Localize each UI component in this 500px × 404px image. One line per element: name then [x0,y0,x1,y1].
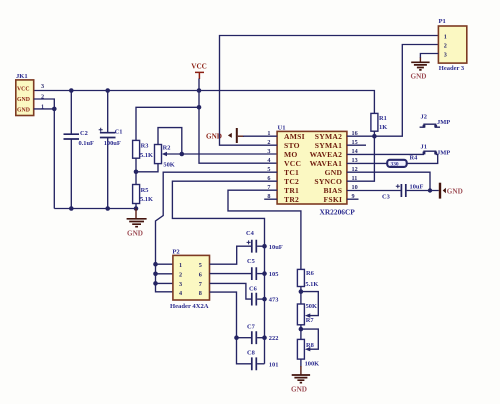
svg-text:JMP: JMP [437,149,450,156]
svg-text:R7: R7 [306,317,315,324]
jumper J2 JMP unconnected [420,113,451,127]
svg-text:R5: R5 [141,187,149,194]
svg-text:J2: J2 [421,113,427,120]
svg-text:C4: C4 [246,230,255,237]
svg-text:3: 3 [267,148,270,155]
svg-text:R1: R1 [379,115,387,122]
node R6/R7 junction [299,289,304,294]
svg-text:6: 6 [199,271,202,278]
svg-text:5: 5 [199,262,202,269]
wire U1 pin15 stub [347,144,366,146]
svg-text:Header 4X2A: Header 4X2A [170,303,209,310]
svg-text:3: 3 [444,51,447,58]
resistor R4 330 [387,154,418,167]
wire GND port to U1 pin1 [243,135,277,137]
wire R1 junction down to U1 pin11 SYNCO [347,136,375,181]
svg-text:WAVEA2: WAVEA2 [310,150,343,159]
wire C7 right plate to bus [257,337,264,339]
U1 right pin names [310,132,343,204]
node C7 branch junction [234,335,239,340]
wire U1 pin7 TR1 over to R6 chain [228,190,301,269]
svg-text:TC1: TC1 [284,168,299,177]
wire C5 right plate to bus [257,273,264,275]
svg-text:5.1K: 5.1K [140,152,153,159]
svg-text:R4: R4 [410,154,419,161]
svg-text:WAVEA1: WAVEA1 [310,159,343,168]
svg-text:8: 8 [199,290,202,297]
wire P1 pin3 to earth ground [420,54,438,59]
svg-text:C3: C3 [382,193,390,200]
node VCC tap junction on top rail [197,88,202,93]
capacitor C5 [247,258,278,280]
connector JK1 [16,73,44,116]
connector P1 Header 3 [438,18,466,72]
svg-text:STO: STO [284,141,300,150]
svg-text:3: 3 [41,83,44,90]
ground earth symbol below R5 [127,209,147,238]
svg-text:2: 2 [444,42,447,49]
wire P2 pin1 stub [156,263,174,265]
ground port GND at U1 pin1 AMSI [206,128,244,143]
svg-text:TR2: TR2 [284,195,299,204]
capacitor C2 [64,130,95,147]
node C1 bottom junction [105,206,110,211]
ground port GND right of C3 [440,183,463,199]
svg-text:SYMA2: SYMA2 [315,132,342,141]
svg-text:0.1uF: 0.1uF [79,140,95,147]
svg-text:MO: MO [284,150,298,159]
svg-text:XR2206CP: XR2206CP [320,208,356,217]
ground earth symbol below P1 [411,58,430,81]
potentiometer R8 100K [297,339,319,367]
node R5/ground rail junction [134,206,139,211]
svg-text:10uF: 10uF [410,184,424,191]
wire P2 pin3 stub [156,282,174,284]
svg-text:TC2: TC2 [284,177,299,186]
wire U1 pin9 FSKI stub [347,198,359,200]
svg-text:GND: GND [325,168,343,177]
wire R7 wiper loop to R6 bottom [301,292,318,316]
wire R2 bottom to R3 bottom [136,164,158,172]
node R2 wiper junction [180,152,185,157]
wire VCC vertical to IC pin4 [199,91,277,164]
wire P2 pin7 down to C6 left plate [210,283,251,299]
wire U1 pin10 BIAS to C3 left plate [347,190,401,192]
node C3/pin12 ground junction [428,188,432,192]
svg-text:C1: C1 [115,129,123,136]
svg-text:VCC: VCC [284,159,301,168]
node P2 pin2 junction [153,272,158,277]
svg-text:BIAS: BIAS [323,186,342,195]
svg-text:GND: GND [17,97,30,103]
node C2 top junction [69,88,74,93]
svg-text:4: 4 [267,157,270,164]
wire bottom ground rail [54,208,136,210]
svg-text:C2: C2 [80,130,88,137]
wire R2 wiper to IC pin3 MO [167,153,278,155]
resistor R1 [371,113,387,131]
U1 left pin names [284,132,305,204]
wire P2 pin6 to C5 left plate [210,273,251,275]
wire R6 bottom to R7 top [300,287,302,305]
svg-text:222: 222 [269,335,279,342]
svg-text:R3: R3 [141,143,149,150]
wire second rail to R3 top [136,107,199,140]
capacitor C6 [249,285,278,305]
capacitor C8 [247,350,278,371]
svg-text:C7: C7 [247,324,256,331]
svg-text:4: 4 [179,290,182,297]
U1 right pin numbers 16-9 [352,130,358,200]
wire U1 pin14 WAVEA2 to J1 [347,153,424,155]
svg-text:5.1K: 5.1K [305,281,318,288]
svg-text:101: 101 [269,361,279,368]
svg-text:P2: P2 [172,249,180,256]
svg-text:C8: C8 [247,350,255,357]
node C4 bus junction [262,244,267,249]
svg-text:10uF: 10uF [269,244,283,251]
wire P2 pin5 up to C4 left plate [210,246,251,264]
capacitor C3 polarized 10uF [382,184,423,201]
jumper J1 JMP [421,144,451,157]
svg-text:GND: GND [17,108,30,114]
wire C4 right plate to bus [257,245,264,247]
svg-text:C6: C6 [249,285,258,292]
resistor R5 [133,185,153,204]
svg-text:50K: 50K [163,161,174,168]
svg-text:7: 7 [199,281,202,288]
wire JK1 pin2 down to pin1 net [34,99,55,109]
wire C8 right plate to bus end [257,363,264,365]
svg-text:1K: 1K [379,124,387,131]
wire U1 pin5 TC1 to P2 left column [156,172,278,292]
wire P2 pin2 stub [156,273,174,275]
node R1 bottom junction [372,134,377,139]
U1 left pin numbers 1-8 [267,130,270,200]
capacitor C7 [247,324,278,345]
wire R7 bottom to R8 top [300,325,302,340]
wire U1 pin12 GND down to C3 node [347,172,430,190]
svg-text:VCC: VCC [17,87,30,93]
svg-text:50K: 50K [306,303,317,310]
svg-text:C5: C5 [247,258,255,265]
node R7/R8 junction [299,327,304,332]
svg-text:GND: GND [127,229,143,237]
wire R8 bottom to earth ground [300,359,302,366]
wire C7 branch [237,337,252,339]
svg-text:330: 330 [391,162,399,168]
node C2 bottom junction [69,206,74,211]
wire C1 leads [107,91,109,209]
capacitor C4 polarized 10uF [246,230,283,253]
wire R8 wiper loop to R7 bottom [301,329,318,349]
node JK1 pin1/pin2 junction [52,107,57,112]
ground earth symbol at bottom [291,366,310,393]
svg-text:SYMA1: SYMA1 [315,141,342,150]
svg-text:105: 105 [269,271,279,278]
wire C3 right plate to ground port [407,190,439,192]
wire R1 bottom to U1 pin16 and P1 pin2 riser [347,45,439,137]
svg-text:AMSI: AMSI [284,132,305,141]
wire U1 pin6 TC2 down to capacitor bus [172,181,277,364]
svg-text:JMP: JMP [437,119,450,126]
svg-text:VCC: VCC [191,63,207,71]
svg-text:3: 3 [179,281,182,288]
node P2 pin1 junction [153,262,158,267]
svg-text:100uF: 100uF [104,140,121,147]
wire VCC top rail from JK1 pin3 to R1 top [34,91,375,114]
wire U1 pin8 TR2 stub [264,198,277,200]
wire JK1 pin1 to left ground vertical [34,108,55,110]
wire P2 pin8 down to C7 and C8 [210,292,251,364]
svg-text:1: 1 [444,33,447,40]
svg-text:2: 2 [179,271,182,278]
node C5 bus junction [262,271,267,276]
wire R5 bottom to ground rail [135,204,137,211]
node R3/R2 bottom junction [134,170,139,175]
node C1 top junction [105,88,110,93]
potentiometer R2 [155,144,175,168]
node C7 bus junction [262,335,267,340]
svg-text:473: 473 [269,297,279,304]
wire U1 pin2 STO up and over to P1 pin1 [220,36,439,146]
op-amp U1 XR2206CP body [277,125,355,217]
wire R2 top loop to wiper net [158,128,182,154]
potentiometer R7 50K [297,303,317,325]
wire J1 right pin down to R4 [407,154,438,163]
node VCC second-rail junction [197,105,202,110]
svg-text:GND: GND [291,385,307,393]
svg-text:100K: 100K [305,361,320,368]
svg-text:R2: R2 [163,144,171,151]
svg-text:GND: GND [411,73,427,81]
node C6 bus junction [262,297,267,302]
svg-text:Header 3: Header 3 [439,65,465,72]
svg-text:5.1K: 5.1K [140,196,153,203]
svg-text:R6: R6 [306,270,315,277]
svg-text:SYNCO: SYNCO [314,177,342,186]
wire C2 leads [70,91,72,209]
resistor R6 [297,269,318,287]
node P2 pin3 junction [153,281,158,286]
capacitor C1 polarized [99,128,123,147]
svg-text:P1: P1 [439,18,446,25]
svg-text:1: 1 [179,262,182,269]
svg-text:JK1: JK1 [16,73,28,80]
svg-text:U1: U1 [278,125,286,132]
resistor R3 [133,140,153,158]
connector P2 Header 4X2A [170,249,210,311]
svg-text:TR1: TR1 [284,186,299,195]
wire U1 pin13 WAVEA1 to R4 [347,162,387,164]
svg-text:GND: GND [447,188,463,196]
power VCC symbol [191,63,207,91]
svg-text:J1: J1 [421,144,427,151]
wire C6 right plate to bus [257,298,264,300]
svg-text:FSKI: FSKI [323,195,342,204]
wire left ground vertical [53,109,55,209]
wire R3 bottom to R5 top [135,158,137,184]
